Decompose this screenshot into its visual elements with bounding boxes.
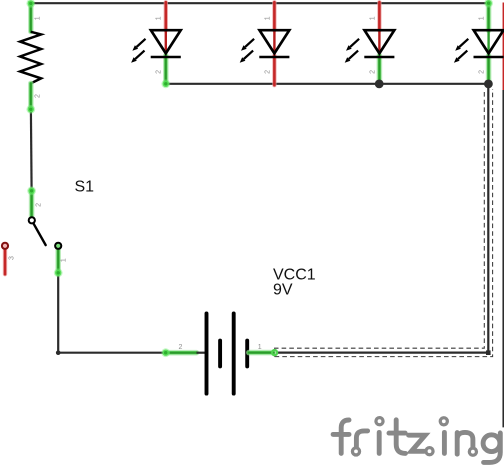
LED D4 light arrow 2 (458, 51, 467, 59)
wire endpoint cap at resistor top (26, 0, 35, 8)
LED D2 triangle (anode) (260, 30, 290, 53)
svg-text:3: 3 (9, 256, 16, 260)
svg-text:1: 1 (258, 344, 262, 351)
switch S1 lever arm (33, 223, 45, 245)
wire endpoint cap at LED4 anode (top) (484, 0, 493, 8)
logo letter f (341, 420, 349, 453)
svg-text:S1: S1 (75, 179, 95, 196)
svg-text:1: 1 (156, 16, 163, 20)
switch S1 pin 3 (red, unconnected) (3, 249, 7, 274)
logo letter n (457, 432, 473, 454)
LED D3 pin 1 (top) (377, 2, 381, 30)
LED D1 pin 1 (top) (164, 2, 168, 30)
wire top rail (resistor R1 pin1 to LED4 pin1) (31, 2, 489, 4)
logo letter t (396, 420, 405, 454)
wire endpoint cap at LED1 cathode (161, 79, 170, 88)
battery VCC1 pin2 dark stub (197, 352, 206, 354)
wire battery VCC1 pin1 to LED junction (horizontal run) (277, 352, 489, 354)
battery VCC1 plate long 2 (232, 313, 236, 393)
resistor R1 zigzag body (20, 32, 41, 84)
LED D2 pin line through body (red) (273, 31, 275, 56)
LED D1 cathode bar (151, 56, 181, 59)
junction bend point at lower-left corner (56, 350, 61, 355)
wire cathode rail (LED1 pin2 to LED4 pin2) (166, 83, 489, 85)
LED5 pin fragment (red, cut at right edge) (502, 3, 504, 91)
LED D1 light arrow 2 (135, 51, 144, 59)
svg-text:1: 1 (479, 16, 486, 20)
svg-text:2: 2 (479, 70, 486, 74)
dashed selection outline of wire (275, 89, 493, 357)
LED D1 pin line through body (red) (165, 31, 167, 56)
logo letter g (cut at edge) (483, 435, 500, 452)
svg-text:2: 2 (36, 203, 43, 207)
svg-text:2: 2 (156, 70, 163, 74)
svg-text:1: 1 (369, 16, 376, 20)
battery VCC1 pin 1 (right, green) (249, 350, 274, 356)
logo letter z (409, 435, 426, 451)
LED D4 cathode bar (474, 56, 504, 59)
bend point of selected wire (486, 350, 491, 355)
wire endpoint ring at battery pin1 (272, 350, 277, 355)
LED D4 triangle (anode) (474, 30, 504, 53)
battery VCC1 plate long 1 (205, 313, 209, 393)
logo ring terminals (352, 418, 476, 456)
wire switch S1 pin1 down to bend (57, 274, 59, 353)
switch S1 terminal circle (pin 3, red) (2, 243, 8, 249)
LED D3 triangle (anode) (365, 30, 395, 53)
logo letter i (second) stem (442, 432, 447, 453)
LED D1 light arrow 1 (137, 39, 146, 47)
wire endpoint cap above switch (27, 186, 36, 195)
svg-text:2: 2 (369, 70, 376, 74)
logo letter r (356, 431, 367, 447)
LED D4 pin 2 (bottom) (486, 56, 492, 84)
LED D2 pin 1 (top) (272, 2, 276, 30)
battery VCC1 plate short 2 (245, 341, 249, 367)
LED D2 light arrow 2 (244, 51, 253, 59)
LED D2 light arrow 1 (245, 39, 254, 47)
LED D4 light arrow 1 (459, 39, 468, 47)
LED D3 cathode bar (364, 56, 394, 59)
svg-text:9V: 9V (273, 281, 293, 298)
LED D3 pin line through body (red) (378, 31, 380, 56)
wire resistor R1 pin2 to switch S1 pin2 (30, 110, 33, 191)
fritzing watermark logo (333, 420, 500, 463)
resistor R1 pin 2 (bottom, green) (28, 83, 34, 109)
battery VCC1 plate short 1 (218, 341, 222, 367)
LED D2 cathode bar (259, 56, 289, 59)
LED D3 light arrow 1 (350, 39, 359, 47)
wire endpoint cap at resistor bottom (26, 105, 35, 114)
switch S1 terminal circle (pin 1) (55, 243, 61, 249)
LED D4 pin line through body (green) (487, 31, 489, 56)
wire endpoint cap at switch pin1 (54, 268, 63, 277)
wire bend to battery VCC1 pin2 (58, 352, 166, 354)
switch S1 pin 2 (top, green) (29, 190, 35, 217)
junction dot at LED3 cathode (375, 80, 384, 89)
logo letter i (first) stem (377, 432, 382, 453)
svg-text:1: 1 (264, 16, 271, 20)
svg-text:2: 2 (35, 94, 42, 98)
LED D3 light arrow 2 (349, 51, 358, 59)
LED D4 pin 1 (top) (486, 3, 492, 30)
LED D1 pin 2 (bottom) (163, 56, 169, 84)
battery VCC1 pin 2 (left, green) (166, 350, 197, 356)
junction dot at LED4 cathode (484, 80, 493, 89)
svg-text:2: 2 (264, 70, 271, 74)
svg-text:2: 2 (179, 344, 183, 351)
wire endpoint cap at battery left (161, 348, 170, 357)
wire vertical run up right side to LED4 junction (487, 85, 489, 353)
switch S1 pin 1 (green, below right circle) (55, 249, 61, 273)
LED D1 triangle (anode) (151, 30, 181, 53)
svg-text:1: 1 (60, 258, 67, 262)
switch S1 terminal circle (pin 2) (29, 217, 35, 223)
LED D2 pin 2 (bottom) (272, 56, 276, 86)
resistor R1 pin 1 (top, green) (28, 3, 34, 31)
wire from LED5 pin2 down right edge (502, 90, 504, 427)
LED D3 pin 2 (bottom) (377, 56, 383, 84)
svg-text:1: 1 (35, 16, 42, 20)
